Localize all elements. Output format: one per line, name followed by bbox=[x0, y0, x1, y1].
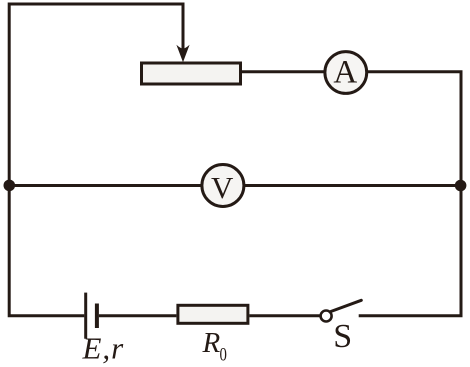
svg-text:0: 0 bbox=[220, 344, 227, 365]
svg-text:V: V bbox=[211, 170, 234, 205]
svg-text:S: S bbox=[333, 318, 352, 355]
svg-text:R: R bbox=[202, 327, 221, 359]
svg-text:A: A bbox=[333, 55, 357, 91]
svg-text:E,r: E,r bbox=[82, 331, 125, 366]
